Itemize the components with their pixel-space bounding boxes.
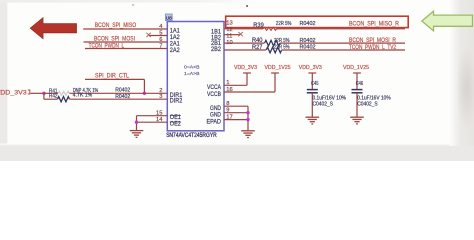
svg-text:C0402_S: C0402_S [313,101,334,107]
svg-text:SPI_DIR_CTL: SPI_DIR_CTL [95,73,129,80]
svg-text:R42: R42 [49,94,58,100]
svg-text:12: 12 [226,27,232,33]
svg-text:22R 5%: 22R 5% [274,45,290,51]
svg-text:R0402: R0402 [115,88,130,94]
svg-text:BCON_SPI_MISO: BCON_SPI_MISO [95,22,137,29]
svg-text:2A2: 2A2 [170,48,181,54]
svg-text:VDD_1V25: VDD_1V25 [343,65,369,71]
svg-text:5: 5 [159,30,162,36]
svg-text:U8: U8 [166,15,172,21]
svg-text:GND: GND [210,106,222,112]
svg-text:VDD_1V25: VDD_1V25 [265,65,291,71]
svg-text:0=A<B: 0=A<B [184,64,200,70]
svg-text:2B2: 2B2 [211,47,222,53]
svg-text:6: 6 [159,37,162,43]
svg-text:22R 5%: 22R 5% [274,38,290,44]
svg-text:TCON_PWDN_L: TCON_PWDN_L [89,43,125,50]
svg-text:VCCA: VCCA [207,85,221,91]
svg-text:10: 10 [226,40,232,46]
svg-text:EPAD: EPAD [207,119,222,125]
svg-text:22R 5%: 22R 5% [276,21,292,27]
svg-text:2A1: 2A1 [170,42,181,48]
svg-text:VCCB: VCCB [207,92,221,98]
svg-text:OE2: OE2 [170,122,182,128]
svg-text:C0402_S: C0402_S [357,101,378,107]
svg-text:BCON_SPI_MOSI: BCON_SPI_MOSI [94,35,135,42]
svg-text:13: 13 [226,21,232,27]
svg-text:R40: R40 [252,38,263,44]
svg-text:OE1: OE1 [170,115,182,121]
svg-text:11: 11 [226,34,232,40]
svg-text:SN74AVC4T245RGYR: SN74AVC4T245RGYR [166,133,217,139]
svg-text:7: 7 [159,43,162,49]
svg-text:VDD_3V3: VDD_3V3 [299,65,322,71]
svg-text:VDD_3V3: VDD_3V3 [0,89,27,96]
svg-text:1=A>B: 1=A>B [184,71,200,77]
svg-text:C46: C46 [356,81,364,87]
svg-text:DIR2: DIR2 [170,99,183,105]
svg-text:R0402: R0402 [115,94,130,100]
svg-text:1A1: 1A1 [170,29,181,35]
svg-text:VDD_3V3: VDD_3V3 [234,65,257,71]
svg-text:1A2: 1A2 [170,35,181,41]
svg-text:4.7K 1%: 4.7K 1% [73,93,93,99]
svg-text:R0402: R0402 [300,45,316,51]
svg-text:C45: C45 [311,81,319,87]
svg-text:BCON_SPI_MISO_R: BCON_SPI_MISO_R [349,21,399,28]
svg-text:R0402: R0402 [300,21,316,27]
svg-text:TCON_PWDN_L_TV2: TCON_PWDN_L_TV2 [349,44,396,51]
svg-text:GND: GND [210,113,222,119]
svg-text:R0402: R0402 [300,38,316,44]
svg-text:R27: R27 [252,45,263,51]
